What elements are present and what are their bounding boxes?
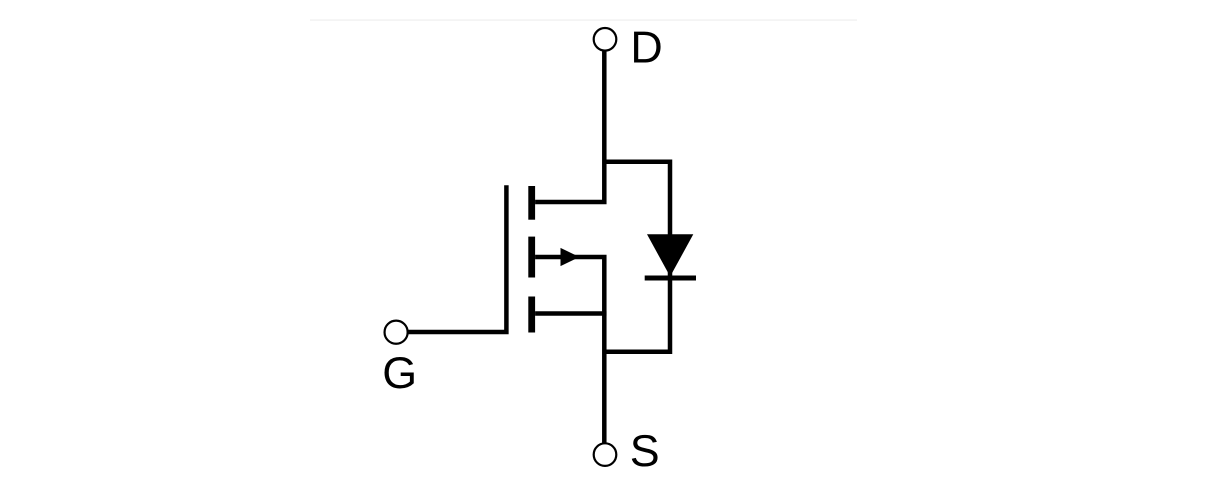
svg-text:D: D xyxy=(630,23,662,73)
svg-text:G: G xyxy=(382,348,417,398)
svg-text:S: S xyxy=(630,426,660,476)
